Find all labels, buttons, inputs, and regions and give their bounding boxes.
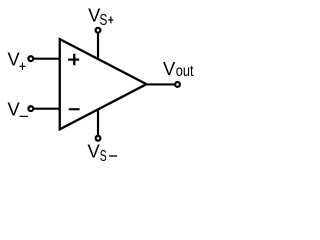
svg-text:V: V: [163, 58, 176, 79]
terminal V-: [28, 106, 33, 111]
svg-text:out: out: [176, 63, 194, 80]
inverting input minus sign: [69, 108, 80, 110]
svg-text:S: S: [100, 148, 107, 165]
svg-text:V: V: [8, 49, 21, 70]
op-amp U1 triangle body: [60, 39, 147, 129]
svg-text:V: V: [8, 99, 21, 120]
wire V+ input: [32, 58, 60, 60]
terminal VS+: [96, 28, 101, 33]
wire VS- supply: [97, 109, 99, 135]
svg-text:S: S: [100, 12, 108, 29]
terminal Vout: [175, 82, 180, 87]
non-inverting input plus sign: [68, 54, 79, 65]
terminal VS-: [96, 136, 101, 141]
terminal V+: [28, 56, 33, 61]
svg-text:V: V: [87, 141, 100, 162]
wire V- input: [32, 108, 60, 110]
wire VS+ supply: [97, 33, 99, 59]
wire Vout output: [146, 83, 175, 85]
